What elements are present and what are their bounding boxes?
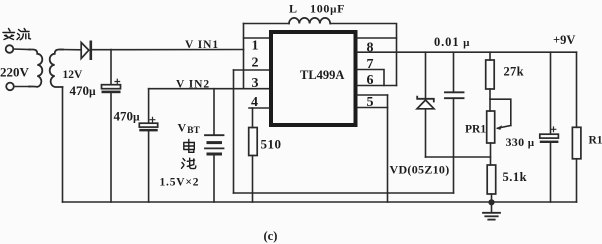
svg-text:+9V: +9V [553,33,575,47]
resistor R510 [249,128,258,156]
svg-text:470µ: 470µ [114,109,141,124]
node junction dot [488,199,494,205]
wire ground rail [63,201,577,203]
polarity plus C2 [150,117,155,122]
wire R510 to ground rail [252,156,254,203]
wire +9V line to zener [425,52,427,98]
zener diode VD 05Z10 [417,97,434,102]
wire battery to ground rail [213,156,215,203]
diode VD1 cathode bar [90,42,93,59]
label 电 (battery char 1) [184,140,195,153]
wire C4 to ground rail [550,143,552,202]
wire PR1 wiper loop [490,99,511,125]
pin6 wire [357,85,397,87]
svg-text:100µF: 100µF [310,2,345,16]
svg-text:VBT: VBT [178,121,201,137]
capacitor C4 330u [540,134,559,138]
capacitor C2 470u [139,123,157,127]
svg-text:1.5V×2: 1.5V×2 [160,177,200,189]
wire pin2 feedback [234,69,270,71]
wire VIN2 [149,88,270,90]
svg-text:2: 2 [252,55,259,70]
pin 4 stub and wire [249,107,270,109]
transformer T primary winding [29,50,42,87]
wire +9V line to C4 [550,52,552,134]
wire VIN2 to battery [213,89,215,135]
resistor 27k [486,60,495,89]
svg-text:330 µ: 330 µ [506,135,535,149]
svg-text:8: 8 [367,40,374,55]
svg-text:7: 7 [367,57,374,72]
polarity plus C1 [115,79,120,84]
label 交流 (AC) hand-drawn glyphs [3,29,31,40]
wire +9V line to R1 [576,52,578,127]
wire inductor to pin8 net [330,24,396,86]
transformer T secondary winding [50,50,63,88]
svg-text:3: 3 [252,76,259,91]
capacitor C3 0.01u [445,91,464,93]
terminal J1 (AC input top) [6,45,14,53]
wire pin5 to ground rail [387,95,389,202]
svg-text:470µ: 470µ [70,83,97,98]
svg-text:6: 6 [367,73,374,88]
polarity plus C4 [551,127,556,132]
terminal J2 (AC input bottom) [6,83,14,91]
svg-text:V IN2: V IN2 [176,79,210,91]
battery GB (1.5Vx2) [205,134,224,136]
potentiometer PR1 [487,111,495,143]
wire R1 to ground rail [576,159,578,202]
wire C2 to ground rail [148,131,150,202]
ground [491,203,493,213]
svg-text:(c): (c) [264,229,278,243]
wire VIN1 from secondary to diode [60,49,81,51]
wire VIN1 to C1 [110,50,112,85]
diode VD1 (rectifier) [81,43,89,59]
wire feedback line A [234,192,454,194]
IC pin ladder right : pin8 box [357,37,397,39]
resistor 5.1k [487,165,496,194]
IC pin ladder left [243,24,245,89]
pin5 box and ground wire [357,94,388,96]
wire PR1 to 5.1k [490,143,492,165]
svg-text:PR1: PR1 [465,124,486,136]
svg-text:VD(05Z10): VD(05Z10) [390,163,450,177]
wire 5.1k to ground node [491,194,493,203]
pin7 wire [357,70,384,86]
wire VIN1 diode to pin1 [92,49,244,51]
wire C1 to ground rail [110,93,112,202]
svg-text:220V: 220V [0,65,30,80]
PR1 wiper arrowhead [496,125,502,130]
svg-text:V IN1: V IN1 [185,39,219,51]
inductor L [289,18,330,24]
svg-text:1: 1 [252,38,259,53]
wire 27k to PR1 [489,89,491,111]
resistor R1 [572,127,581,159]
svg-text:0.01 µ: 0.01 µ [434,35,470,49]
svg-text:27k: 27k [504,65,524,79]
wire [13,48,30,51]
wire [14,86,30,88]
wire +9V line to C3 [453,52,455,92]
svg-text:TL499A: TL499A [300,68,344,82]
wire zener anode down [425,109,427,157]
wire +9V line to 27k [489,52,491,60]
inductor L top wire [244,23,290,25]
op IC U1 TL499A body [271,32,356,125]
svg-text:12V: 12V [63,69,84,81]
label 池 (battery char 2) [182,158,196,168]
capacitor C1 470u [102,85,121,89]
wire zener bottom to divider [426,156,491,158]
wire VIN2 to C2 [148,89,150,123]
svg-text:4: 4 [251,95,258,110]
wire secondary bottom to ground rail [62,87,64,202]
svg-text:R1: R1 [589,135,602,147]
svg-text:5.1k: 5.1k [503,170,528,184]
wire +9V output line [357,51,577,53]
svg-text:510: 510 [261,137,282,152]
svg-text:5: 5 [367,95,374,110]
svg-text:L: L [289,2,297,16]
wire C3 bottom to feedback line [453,98,455,193]
